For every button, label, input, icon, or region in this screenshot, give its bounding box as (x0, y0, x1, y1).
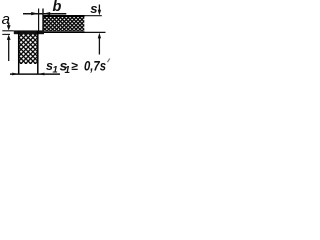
svg-text:≥: ≥ (71, 59, 78, 73)
top edge of horizontal sheet (43, 15, 85, 17)
right edge of vertical sheet + extension line for s1 (37, 31, 39, 75)
extension line a top (2, 30, 14, 32)
svg-text:1: 1 (53, 65, 58, 76)
dimension s lower arrow (pointing up) (98, 33, 101, 39)
arrowhead s1 left (pointing right) (12, 73, 18, 76)
svg-text:1: 1 (65, 65, 71, 76)
arrowhead b left (pointing right) (31, 12, 38, 15)
extension line b (left, from vertical sheet edge) (38, 9, 40, 31)
svg-text:0,7s: 0,7s (84, 57, 106, 73)
top extension line for s (85, 15, 102, 17)
left edge of vertical sheet + extension line for s1 (18, 31, 20, 75)
horizontal sheet (hatched) (43, 9, 106, 34)
bottom extension line for s (85, 31, 106, 33)
svg-text:s: s (90, 1, 97, 16)
solder seam (solid black) (14, 30, 44, 34)
left end face of horizontal sheet + extension line for b (42, 9, 44, 34)
vertical sheet (hatched) (18, 31, 38, 75)
hatch fill of horizontal sheet (43, 16, 84, 31)
dimension s upper arrow (pointing down) (98, 5, 100, 11)
arrowhead b right (pointing left) (43, 12, 50, 15)
dimension line b (23, 13, 66, 15)
dimension a lower arrow (pointing up) (7, 35, 11, 40)
svg-text:b: b (53, 0, 62, 15)
stray mark right edge (107, 59, 109, 63)
dimension a upper arrow (pointing down) (8, 23, 10, 27)
extension line a bottom (2, 33, 10, 35)
arrowhead s1 right (pointing left) (38, 73, 44, 76)
hatch fill of vertical sheet (18, 34, 38, 64)
dimension line s1 (10, 73, 60, 75)
bottom edge of horizontal sheet (43, 31, 85, 33)
